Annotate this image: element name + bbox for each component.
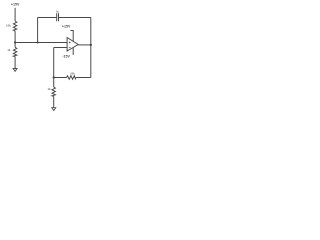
op-amp minus input mark [69, 46, 71, 48]
node A junction dot [14, 41, 16, 43]
svg-text:-15V: -15V [62, 55, 70, 59]
wire feedback left vertical [37, 18, 39, 43]
resistor R4 [52, 87, 55, 96]
svg-text:1k: 1k [47, 87, 51, 91]
wire op-amp output [78, 44, 91, 46]
wire node A to op-amp noninverting input [15, 42, 67, 44]
node C output junction dot [90, 44, 92, 46]
svg-text:+15V: +15V [62, 25, 71, 29]
wire feedback row right segment [76, 77, 91, 79]
wire R2 to ground [14, 57, 16, 69]
svg-text:1u: 1u [56, 10, 60, 14]
resistor R1 [13, 21, 16, 31]
op-amp V- pin [72, 47, 74, 55]
op-amp V+ pin with top hook [70, 31, 73, 42]
wire feedback row left segment [54, 77, 67, 79]
wire R1 to node A [14, 31, 16, 47]
ground (left, hollow triangle) [13, 69, 17, 72]
op-amp U1 triangle [67, 38, 78, 52]
resistor R3 (feedback, horizontal) [66, 76, 75, 79]
node D junction dot [53, 76, 55, 78]
node B junction dot (cap feedback tap) [37, 41, 39, 43]
wire top feedback to capacitor [38, 17, 57, 19]
wire inverting input down to feedback row [53, 48, 55, 78]
svg-text:10k: 10k [70, 71, 75, 75]
resistor R2 [13, 47, 16, 56]
capacitor C1 [57, 13, 59, 21]
svg-text:+15V: +15V [11, 3, 20, 7]
ground (bottom, hollow triangle) [52, 108, 56, 111]
svg-text:1k: 1k [7, 48, 11, 52]
wire from +15V down to R1 [14, 8, 16, 21]
op-amp plus input mark [69, 42, 71, 44]
wire inverting input stub [54, 47, 67, 49]
svg-text:10k: 10k [6, 23, 11, 27]
wire right vertical rail [90, 18, 92, 78]
wire R4 to ground [53, 96, 55, 107]
wire node D down to R4 [53, 78, 55, 88]
wire capacitor to right rail [59, 17, 91, 19]
